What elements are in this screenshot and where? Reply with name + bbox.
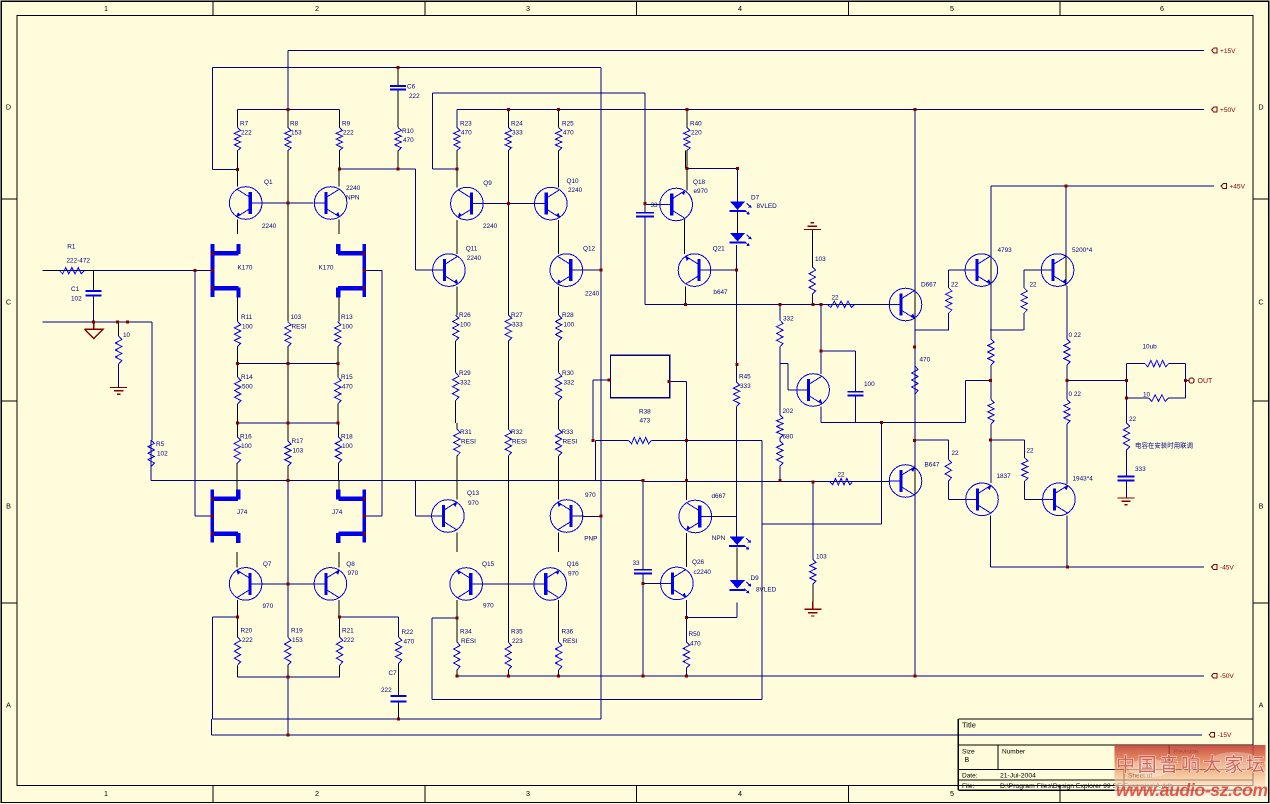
svg-text:RESI: RESI (563, 638, 578, 645)
svg-text:2240: 2240 (568, 187, 583, 194)
svg-text:102: 102 (157, 451, 168, 458)
svg-text:RESI: RESI (512, 438, 527, 445)
svg-text:J74: J74 (332, 509, 343, 516)
svg-text:103: 103 (815, 256, 826, 263)
svg-text:3: 3 (526, 789, 530, 798)
svg-text:Q12: Q12 (583, 246, 596, 253)
svg-text:100: 100 (342, 443, 353, 450)
svg-text:0 22: 0 22 (1069, 332, 1082, 339)
svg-text:B: B (1259, 502, 1264, 511)
svg-text:R29: R29 (459, 370, 471, 377)
svg-text:D667: D667 (921, 282, 937, 289)
svg-text:R10: R10 (402, 128, 414, 135)
svg-text:R11: R11 (241, 314, 253, 321)
svg-text:C: C (6, 298, 11, 307)
svg-text:D: D (1258, 103, 1263, 112)
svg-text:R31: R31 (460, 429, 472, 436)
svg-text:R40: R40 (690, 121, 702, 128)
svg-text:R15: R15 (341, 374, 353, 381)
svg-text:332: 332 (564, 379, 575, 386)
svg-text:R9: R9 (342, 121, 351, 128)
svg-text:www.audio-sz.com: www.audio-sz.com (1116, 780, 1268, 800)
svg-text:970: 970 (468, 500, 479, 507)
svg-text:R8: R8 (290, 121, 299, 128)
svg-text:4793: 4793 (998, 247, 1013, 254)
svg-text:d667: d667 (712, 493, 727, 500)
svg-text:333: 333 (740, 383, 751, 390)
svg-text:22: 22 (832, 295, 840, 302)
svg-text:RESI: RESI (292, 323, 307, 330)
svg-text:R30: R30 (562, 370, 574, 377)
svg-text:R24: R24 (511, 121, 523, 128)
svg-text:10: 10 (123, 332, 131, 339)
svg-text:R34: R34 (460, 629, 472, 636)
svg-text:+15V: +15V (1220, 48, 1236, 55)
svg-text:1: 1 (104, 789, 108, 798)
svg-text:R33: R33 (562, 429, 574, 436)
svg-text:470: 470 (563, 130, 574, 137)
svg-text:R1: R1 (67, 244, 76, 251)
svg-text:100: 100 (241, 443, 252, 450)
svg-text:103: 103 (291, 314, 302, 321)
svg-text:470: 470 (404, 638, 415, 645)
svg-text:Q15: Q15 (482, 561, 495, 568)
svg-text:-50V: -50V (1220, 673, 1235, 680)
svg-text:R19: R19 (291, 628, 303, 635)
svg-text:222: 222 (242, 637, 253, 644)
svg-text:File:: File: (962, 783, 974, 790)
svg-text:D9: D9 (751, 575, 760, 582)
svg-text:202: 202 (783, 408, 794, 415)
svg-text:473: 473 (640, 418, 651, 425)
svg-text:R5: R5 (156, 441, 165, 448)
svg-text:D: D (6, 103, 11, 112)
svg-text:R36: R36 (562, 629, 574, 636)
svg-text:C1: C1 (71, 286, 80, 293)
svg-text:Q1: Q1 (264, 179, 273, 186)
svg-text:6: 6 (1160, 4, 1164, 13)
svg-text:22: 22 (1027, 448, 1035, 455)
svg-text:332: 332 (460, 379, 471, 386)
svg-text:R45: R45 (739, 374, 751, 381)
svg-text:2: 2 (315, 4, 319, 13)
svg-text:R22: R22 (402, 629, 414, 636)
svg-text:2240: 2240 (483, 223, 498, 230)
svg-text:Q11: Q11 (466, 246, 478, 253)
svg-text:4: 4 (738, 4, 742, 13)
svg-text:0 22: 0 22 (1069, 391, 1082, 398)
svg-text:33: 33 (633, 560, 641, 567)
svg-text:222-472: 222-472 (67, 258, 91, 265)
svg-text:R17: R17 (292, 438, 304, 445)
svg-text:22: 22 (952, 450, 960, 457)
svg-text:2: 2 (315, 789, 319, 798)
svg-text:22: 22 (1030, 282, 1038, 289)
svg-text:C: C (1258, 298, 1263, 307)
svg-text:970: 970 (585, 492, 596, 499)
svg-text:Q10: Q10 (567, 178, 580, 185)
svg-text:B: B (965, 757, 970, 764)
svg-text:5200*4: 5200*4 (1072, 247, 1093, 254)
svg-text:153: 153 (292, 637, 303, 644)
svg-text:4: 4 (738, 789, 742, 798)
svg-text:970: 970 (348, 570, 359, 577)
svg-text:Q18: Q18 (693, 179, 706, 186)
svg-text:J74: J74 (237, 509, 248, 516)
svg-text:A: A (6, 701, 11, 710)
svg-text:R25: R25 (562, 121, 574, 128)
svg-text:+50V: +50V (1220, 107, 1236, 114)
svg-text:222: 222 (344, 637, 355, 644)
svg-text:333: 333 (512, 130, 523, 137)
svg-text:470: 470 (690, 640, 701, 647)
svg-text:3: 3 (526, 4, 530, 13)
svg-text:222: 222 (381, 687, 392, 694)
svg-text:Title: Title (962, 721, 976, 730)
svg-text:Q7: Q7 (263, 561, 272, 568)
svg-text:B: B (6, 502, 11, 511)
svg-text:100: 100 (242, 323, 253, 330)
svg-text:970: 970 (263, 603, 274, 610)
svg-text:8VLED: 8VLED (756, 587, 777, 594)
svg-text:C6: C6 (407, 84, 416, 91)
svg-text:电容在安装时用联调: 电容在安装时用联调 (1135, 440, 1193, 449)
svg-text:5: 5 (950, 4, 954, 13)
svg-text:8VLED: 8VLED (757, 203, 778, 210)
svg-text:中国音响大家坛: 中国音响大家坛 (1116, 754, 1265, 776)
svg-text:153: 153 (291, 130, 302, 137)
svg-text:Q26: Q26 (692, 559, 705, 566)
svg-text:-45V: -45V (1220, 565, 1235, 572)
svg-text:103: 103 (293, 447, 304, 454)
svg-text:-15V: -15V (1218, 732, 1233, 739)
svg-text:33: 33 (651, 202, 659, 209)
svg-text:2240: 2240 (346, 185, 361, 192)
svg-text:10ub: 10ub (1143, 343, 1158, 350)
svg-text:100: 100 (342, 323, 353, 330)
svg-text:470: 470 (920, 357, 931, 364)
svg-text:10: 10 (1143, 392, 1151, 399)
svg-text:5: 5 (950, 789, 954, 798)
svg-text:2240: 2240 (262, 223, 277, 230)
svg-text:222: 222 (241, 130, 252, 137)
svg-text:RESI: RESI (461, 438, 476, 445)
svg-text:Number: Number (1002, 749, 1026, 756)
svg-text:R20: R20 (241, 628, 253, 635)
svg-text:R13: R13 (341, 314, 353, 321)
svg-text:RESI: RESI (563, 438, 578, 445)
svg-text:332: 332 (783, 316, 794, 323)
svg-text:1837: 1837 (997, 473, 1012, 480)
svg-text:c2240: c2240 (694, 569, 712, 576)
svg-text:R26: R26 (459, 312, 471, 319)
svg-text:100: 100 (460, 321, 471, 328)
svg-text:21-Jul-2004: 21-Jul-2004 (1000, 772, 1036, 779)
svg-text:22: 22 (951, 282, 959, 289)
svg-text:970: 970 (568, 570, 579, 577)
svg-text:970: 970 (483, 603, 494, 610)
svg-text:e970: e970 (694, 188, 709, 195)
svg-text:B647: B647 (925, 461, 940, 468)
svg-text:Q16: Q16 (567, 561, 580, 568)
svg-text:2240: 2240 (467, 255, 482, 262)
svg-text:1943*4: 1943*4 (1073, 476, 1094, 483)
svg-text:Q13: Q13 (467, 490, 480, 497)
svg-text:R38: R38 (639, 408, 651, 415)
svg-text:2240: 2240 (585, 291, 600, 298)
svg-text:100: 100 (864, 381, 875, 388)
svg-text:Q8: Q8 (346, 561, 355, 568)
svg-text:333: 333 (1135, 466, 1146, 473)
svg-text:22: 22 (838, 472, 846, 479)
svg-text:103: 103 (816, 553, 827, 560)
svg-text:b647: b647 (713, 289, 728, 296)
svg-text:NPN: NPN (712, 535, 726, 542)
svg-text:OUT: OUT (1198, 378, 1214, 385)
svg-text:680: 680 (783, 434, 794, 441)
svg-text:100: 100 (564, 321, 575, 328)
svg-text:R21: R21 (342, 628, 354, 635)
svg-text:+45V: +45V (1229, 184, 1245, 191)
svg-text:K170: K170 (238, 264, 253, 271)
svg-text:R50: R50 (689, 631, 701, 638)
svg-text:R7: R7 (240, 121, 249, 128)
svg-text:333: 333 (512, 321, 523, 328)
svg-text:470: 470 (403, 137, 414, 144)
svg-text:R16: R16 (240, 434, 252, 441)
svg-text:R14: R14 (241, 374, 253, 381)
svg-text:1: 1 (104, 4, 108, 13)
svg-text:222: 222 (409, 93, 420, 100)
svg-text:R23: R23 (460, 121, 472, 128)
svg-text:102: 102 (71, 296, 82, 303)
svg-text:222: 222 (343, 130, 354, 137)
svg-text:R32: R32 (511, 429, 523, 436)
svg-text:R35: R35 (511, 629, 523, 636)
svg-text:220: 220 (691, 130, 702, 137)
svg-text:R18: R18 (341, 434, 353, 441)
svg-text:NPN: NPN (346, 195, 360, 202)
svg-text:PNP: PNP (584, 535, 597, 542)
svg-text:470: 470 (342, 383, 353, 390)
svg-text:470: 470 (461, 130, 472, 137)
svg-text:22: 22 (1129, 416, 1137, 423)
svg-text:K170: K170 (319, 264, 334, 271)
svg-text:Date:: Date: (962, 772, 978, 779)
svg-text:R28: R28 (562, 312, 574, 319)
svg-text:RESI: RESI (461, 638, 476, 645)
svg-text:R27: R27 (511, 312, 523, 319)
svg-text:C7: C7 (389, 670, 398, 677)
svg-text:D7: D7 (751, 195, 760, 202)
svg-text:Size: Size (962, 749, 975, 756)
svg-text:A: A (1259, 701, 1264, 710)
svg-text:223: 223 (512, 638, 523, 645)
svg-text:500: 500 (242, 383, 253, 390)
svg-text:Q21: Q21 (713, 246, 726, 253)
svg-text:Q9: Q9 (483, 180, 492, 187)
